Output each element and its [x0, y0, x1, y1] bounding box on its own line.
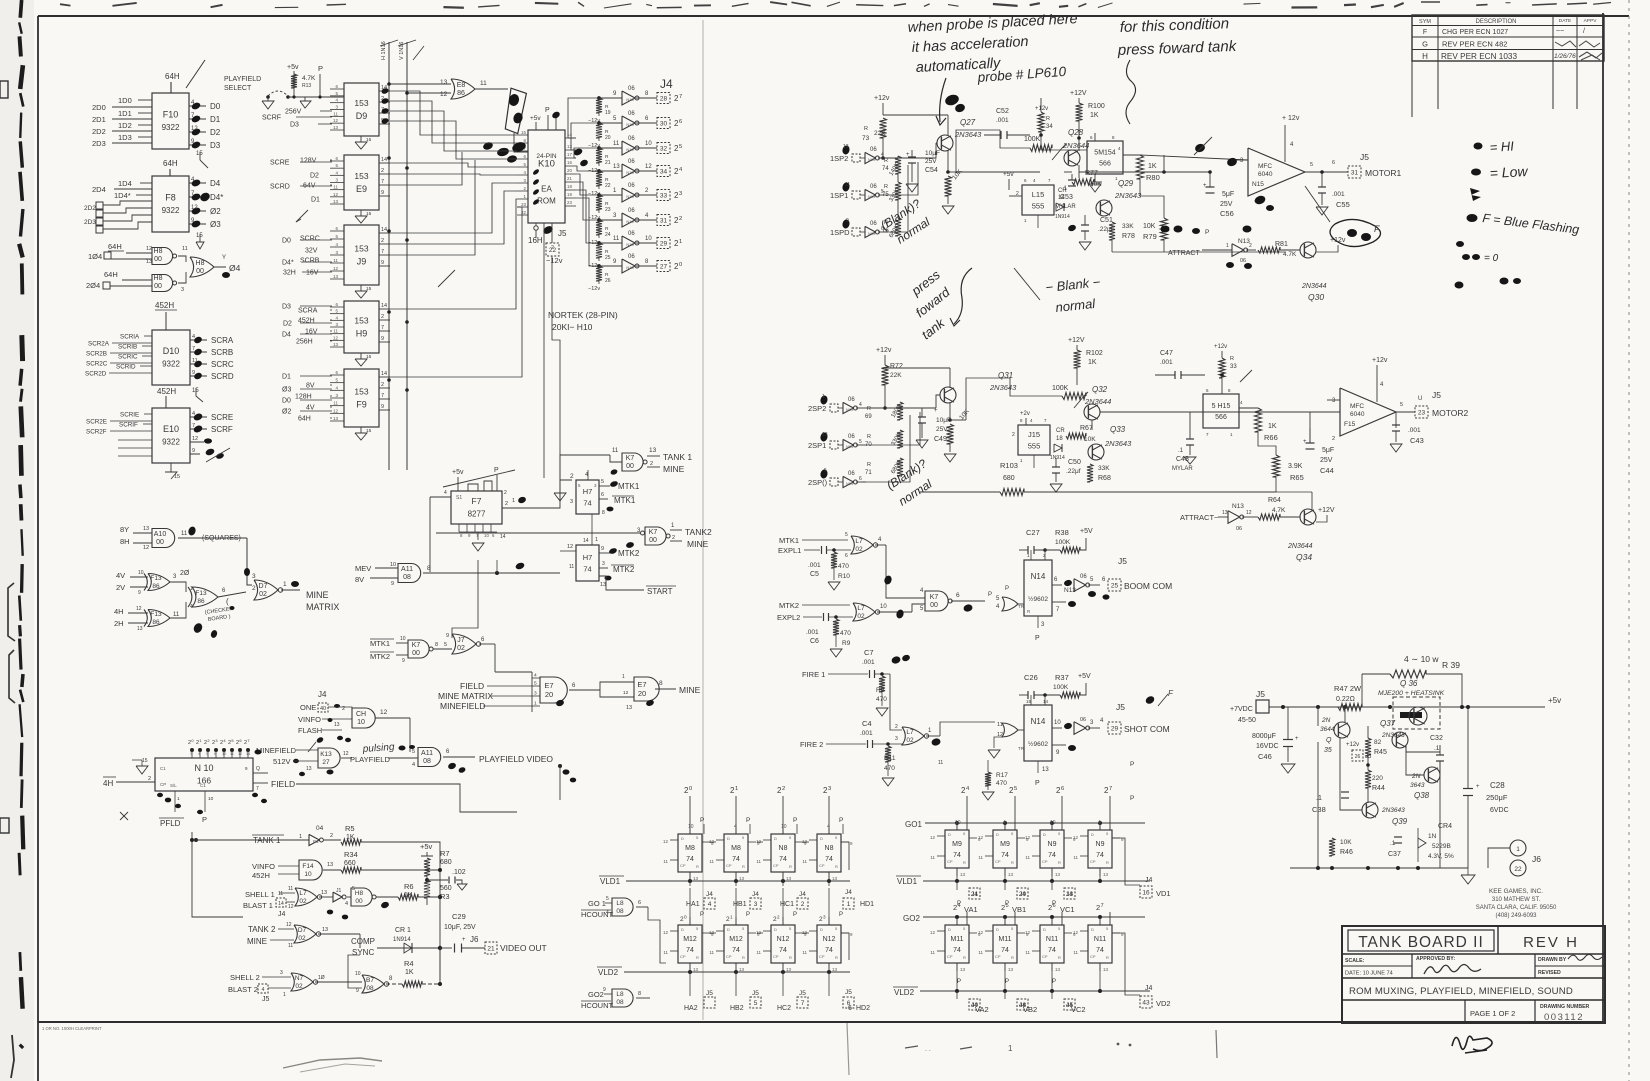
svg-text:D0: D0	[282, 238, 291, 245]
svg-text:13: 13	[1222, 510, 1228, 516]
svg-text:74: 74	[1096, 947, 1104, 954]
svg-text:C29: C29	[452, 912, 466, 921]
svg-text:D9: D9	[356, 111, 368, 121]
svg-text:1K: 1K	[1148, 163, 1157, 170]
svg-text:C54: C54	[925, 167, 938, 174]
svg-text:TANK 1: TANK 1	[253, 836, 281, 845]
svg-text:J5: J5	[1116, 702, 1125, 712]
svg-text:R46: R46	[1340, 849, 1353, 856]
svg-text:J6: J6	[1532, 854, 1541, 864]
svg-text:R: R	[867, 434, 871, 440]
svg-text:153: 153	[354, 171, 368, 181]
svg-text:11: 11	[480, 80, 487, 87]
svg-text:MINEFIELD: MINEFIELD	[256, 746, 297, 755]
svg-text:4: 4	[192, 411, 195, 417]
svg-text:1D4*: 1D4*	[114, 191, 131, 200]
svg-text:13: 13	[143, 526, 149, 532]
svg-text:R103: R103	[1000, 461, 1018, 470]
svg-text:R: R	[884, 184, 888, 190]
svg-text:3: 3	[534, 691, 537, 697]
svg-text:= Low: = Low	[1489, 163, 1528, 181]
svg-text:4: 4	[192, 334, 195, 340]
svg-text:P: P	[793, 817, 797, 824]
svg-text:74: 74	[732, 947, 740, 954]
svg-text:9: 9	[381, 190, 384, 196]
svg-text:128H: 128H	[295, 394, 312, 401]
svg-text:.1: .1	[1178, 448, 1184, 454]
svg-text:L7: L7	[906, 729, 914, 736]
svg-text:11: 11	[1025, 855, 1030, 860]
svg-text:MINE: MINE	[247, 937, 267, 946]
svg-text:13: 13	[822, 432, 828, 438]
svg-text:5: 5	[606, 896, 609, 902]
svg-text:4: 4	[827, 824, 830, 830]
svg-text:11: 11	[978, 950, 983, 955]
svg-text:D: D	[948, 832, 951, 837]
svg-text:MTK2: MTK2	[370, 652, 390, 661]
svg-text:3: 3	[570, 499, 573, 505]
svg-text:11: 11	[612, 448, 619, 454]
svg-text:N9: N9	[1096, 841, 1105, 848]
svg-text:SCRA: SCRA	[298, 308, 318, 315]
svg-text:EXPL1: EXPL1	[778, 546, 801, 555]
svg-text:5: 5	[859, 439, 862, 445]
svg-text:D: D	[727, 836, 730, 841]
svg-text:J5: J5	[752, 990, 759, 997]
svg-text:D3: D3	[290, 122, 299, 129]
svg-text:17: 17	[567, 152, 572, 157]
svg-text:74: 74	[1001, 852, 1009, 859]
svg-text:1SP2: 1SP2	[830, 154, 848, 163]
svg-text:R72: R72	[890, 363, 903, 370]
svg-text:13: 13	[440, 79, 448, 86]
svg-text:C1: C1	[160, 766, 166, 771]
svg-text:11: 11	[802, 950, 807, 955]
svg-text:1D2: 1D2	[118, 121, 132, 130]
svg-text:06: 06	[848, 471, 855, 477]
svg-text:P: P	[700, 912, 704, 918]
svg-text:74: 74	[1096, 852, 1104, 859]
svg-text:6: 6	[845, 553, 848, 559]
svg-text:MEV: MEV	[355, 564, 371, 573]
svg-text:9322: 9322	[162, 437, 180, 446]
svg-text:2: 2	[381, 382, 384, 388]
svg-text:12: 12	[143, 545, 149, 551]
svg-text:14: 14	[246, 752, 250, 756]
svg-text:8Y: 8Y	[120, 525, 129, 534]
svg-text:555: 555	[1032, 201, 1045, 210]
svg-text:R9: R9	[842, 640, 851, 647]
svg-text:B1: B1	[313, 839, 319, 844]
svg-text:7: 7	[192, 346, 195, 352]
svg-text:VINFO: VINFO	[252, 862, 275, 871]
svg-text:10: 10	[304, 871, 312, 878]
svg-text:74: 74	[825, 856, 833, 863]
svg-text:32: 32	[660, 145, 668, 152]
svg-text:P: P	[1052, 979, 1056, 985]
svg-text:TANK BOARD II: TANK BOARD II	[1358, 934, 1484, 951]
svg-text:11: 11	[802, 859, 807, 864]
svg-text:SCR2F: SCR2F	[86, 429, 107, 436]
svg-text:C52: C52	[996, 108, 1009, 115]
svg-text:START: START	[647, 587, 673, 596]
svg-text:.001: .001	[1160, 359, 1173, 366]
svg-text:16VDC: 16VDC	[1256, 743, 1279, 750]
svg-text:34: 34	[1046, 124, 1053, 130]
svg-text:5: 5	[679, 144, 682, 150]
svg-text:FLASH: FLASH	[298, 726, 322, 735]
svg-text:20: 20	[567, 168, 572, 173]
svg-text:3: 3	[280, 970, 283, 976]
svg-text:9322: 9322	[162, 359, 180, 368]
svg-text:32H: 32H	[283, 270, 296, 277]
svg-text:1: 1	[199, 738, 201, 743]
svg-text:M11: M11	[998, 936, 1011, 943]
svg-text:N15: N15	[626, 97, 634, 102]
svg-text:P: P	[746, 912, 750, 918]
svg-text:DRAWING NUMBER: DRAWING NUMBER	[1540, 1004, 1590, 1010]
svg-text:R37: R37	[1055, 673, 1069, 682]
svg-text:3: 3	[754, 901, 758, 908]
svg-text:06: 06	[1080, 574, 1087, 580]
svg-text:CP: CP	[680, 863, 686, 868]
svg-text:GO2: GO2	[588, 990, 604, 999]
svg-text:CP: CP	[1042, 859, 1048, 864]
svg-text:06: 06	[848, 434, 855, 440]
svg-text:BOOM COM: BOOM COM	[1124, 581, 1172, 591]
svg-text:. .: . .	[925, 1046, 931, 1053]
svg-text:C49: C49	[934, 436, 947, 443]
svg-text:J4: J4	[752, 891, 759, 898]
svg-text:K13: K13	[320, 751, 332, 758]
svg-text:Ø3: Ø3	[282, 387, 291, 394]
svg-text:74: 74	[779, 947, 787, 954]
svg-text:100K: 100K	[1024, 136, 1041, 143]
svg-text:SCR2B: SCR2B	[86, 351, 107, 358]
svg-text:R65: R65	[1290, 473, 1304, 482]
svg-text:680: 680	[1003, 475, 1015, 482]
svg-text:9: 9	[356, 988, 359, 994]
svg-text:4: 4	[262, 987, 265, 993]
svg-text:P: P	[494, 467, 499, 474]
svg-text:H: H	[1422, 52, 1428, 61]
svg-text:13: 13	[786, 967, 792, 972]
svg-text:10μF: 10μF	[925, 150, 940, 157]
svg-text:02: 02	[906, 737, 914, 744]
svg-text:CP: CP	[1090, 954, 1096, 959]
svg-text:ATTRACT: ATTRACT	[1168, 250, 1200, 257]
svg-text:2N3643: 2N3643	[1104, 439, 1132, 448]
svg-text:2D2: 2D2	[84, 205, 96, 212]
svg-text:23: 23	[521, 202, 526, 207]
svg-text:CH: CH	[356, 711, 366, 718]
svg-text:33K: 33K	[1098, 465, 1110, 472]
svg-text:13: 13	[567, 144, 572, 149]
svg-text:6: 6	[679, 119, 682, 125]
svg-text:2: 2	[953, 903, 957, 912]
svg-text:C47: C47	[1160, 350, 1173, 357]
svg-text:D10: D10	[163, 346, 180, 356]
svg-text:06: 06	[628, 208, 635, 214]
svg-text:pulsing: pulsing	[361, 742, 395, 755]
svg-text:08: 08	[616, 908, 624, 915]
svg-text:13: 13	[960, 967, 966, 972]
svg-text:12: 12	[380, 709, 388, 716]
svg-text:+5v: +5v	[452, 469, 464, 476]
svg-text:D7: D7	[298, 927, 307, 934]
svg-text:00: 00	[196, 268, 204, 275]
svg-text:MINE: MINE	[663, 464, 685, 474]
svg-text:5 H15: 5 H15	[1212, 403, 1231, 410]
svg-text:A10: A10	[154, 531, 167, 538]
svg-text:EA: EA	[541, 184, 552, 193]
svg-text:9: 9	[381, 336, 384, 342]
svg-text:CP: CP	[726, 954, 732, 959]
svg-text:2: 2	[1332, 436, 1335, 442]
svg-text:GO2: GO2	[903, 914, 920, 923]
svg-text:13: 13	[306, 766, 312, 772]
svg-text:CP: CP	[773, 954, 779, 959]
svg-text:13: 13	[1008, 872, 1014, 877]
svg-text:06: 06	[1236, 526, 1242, 532]
svg-text:L7: L7	[857, 605, 865, 612]
svg-text:1Ø4: 1Ø4	[88, 252, 102, 261]
svg-text:K7: K7	[930, 594, 939, 601]
svg-text:3643: 3643	[1410, 782, 1425, 789]
svg-text:11: 11	[709, 859, 714, 864]
svg-text:VLD1: VLD1	[897, 877, 918, 886]
svg-text:VA1: VA1	[964, 905, 978, 914]
svg-text:12: 12	[623, 690, 629, 696]
svg-text:11: 11	[663, 859, 668, 864]
svg-text:S/L: S/L	[170, 783, 177, 788]
svg-text:0: 0	[684, 914, 687, 919]
svg-text:11: 11	[930, 950, 935, 955]
svg-text:153: 153	[354, 316, 368, 326]
svg-text:12: 12	[709, 930, 715, 935]
svg-text:SCRF: SCRF	[262, 115, 281, 122]
svg-text:SCRF: SCRF	[211, 425, 233, 434]
svg-text:2H: 2H	[114, 619, 124, 628]
svg-text:SCALE:: SCALE:	[1345, 958, 1365, 964]
svg-text:12: 12	[333, 118, 339, 123]
svg-text:13: 13	[333, 199, 339, 204]
svg-text:TR: TR	[1018, 746, 1025, 751]
svg-text:12: 12	[286, 922, 292, 928]
svg-text:J4: J4	[318, 690, 327, 699]
svg-text:FIELD: FIELD	[460, 681, 484, 691]
svg-text:1: 1	[177, 796, 180, 802]
svg-text:GO1: GO1	[905, 820, 922, 829]
svg-text:15: 15	[366, 286, 372, 292]
svg-text:APPV: APPV	[1584, 18, 1598, 24]
svg-text:EXPL2: EXPL2	[777, 613, 800, 622]
svg-text:25V: 25V	[1320, 457, 1333, 464]
svg-text:J4: J4	[1145, 877, 1153, 884]
svg-text:J5: J5	[558, 229, 567, 238]
svg-text:86: 86	[152, 583, 160, 590]
svg-text:8V: 8V	[306, 383, 315, 390]
svg-text:R66: R66	[1264, 433, 1278, 442]
svg-text:R100: R100	[1088, 103, 1105, 110]
svg-text:P: P	[746, 817, 750, 824]
svg-text:MTK1: MTK1	[618, 482, 640, 491]
svg-text:7: 7	[381, 249, 384, 255]
svg-text:25V: 25V	[925, 158, 937, 165]
svg-text:06: 06	[1240, 258, 1246, 264]
svg-text:12: 12	[288, 904, 294, 910]
svg-text:14: 14	[381, 227, 387, 233]
svg-text:4: 4	[190, 604, 193, 610]
svg-text:2N3643: 2N3643	[989, 383, 1017, 392]
svg-text:E7: E7	[544, 681, 553, 690]
svg-text:N15: N15	[626, 170, 634, 175]
svg-text:31: 31	[1351, 169, 1359, 176]
svg-text:C37: C37	[1388, 851, 1401, 858]
svg-text:12: 12	[1025, 835, 1031, 840]
svg-text:452H: 452H	[155, 301, 174, 310]
svg-text:VLD2: VLD2	[894, 988, 915, 997]
svg-text:BLAST 2: BLAST 2	[228, 985, 258, 994]
svg-text:33K: 33K	[1122, 223, 1134, 230]
svg-text:−12v: −12v	[546, 256, 563, 265]
svg-text:+: +	[1476, 784, 1480, 790]
svg-text:2N3643: 2N3643	[1114, 191, 1142, 200]
svg-text:J6: J6	[470, 935, 479, 944]
svg-text:2SP2: 2SP2	[808, 404, 826, 413]
svg-text:P: P	[988, 592, 992, 598]
svg-text:HB2: HB2	[730, 1005, 744, 1012]
svg-text:2: 2	[551, 245, 554, 251]
svg-text:6: 6	[847, 1000, 851, 1007]
svg-text:D2: D2	[310, 173, 319, 180]
svg-text:C27: C27	[1026, 528, 1040, 537]
svg-text:SYM: SYM	[1419, 19, 1431, 25]
svg-text:R 39: R 39	[1442, 660, 1460, 670]
svg-text:SCRE: SCRE	[270, 160, 290, 167]
svg-text:HA2: HA2	[684, 1005, 698, 1012]
svg-text:COMP: COMP	[351, 937, 375, 946]
svg-text:10: 10	[645, 141, 652, 147]
svg-text:9: 9	[192, 370, 195, 376]
svg-text:MINE: MINE	[679, 685, 701, 695]
svg-text:Q37: Q37	[1380, 719, 1396, 728]
svg-text:12: 12	[333, 266, 339, 271]
svg-text:N13: N13	[1064, 587, 1076, 594]
svg-text:13: 13	[1103, 967, 1109, 972]
svg-text:SCR2E: SCR2E	[86, 419, 107, 426]
svg-text:1: 1	[283, 992, 286, 998]
svg-text:153: 153	[354, 98, 368, 108]
svg-text:4: 4	[606, 910, 609, 916]
svg-text:J4: J4	[278, 911, 286, 918]
svg-text:2: 2	[650, 461, 653, 467]
svg-text:23: 23	[1418, 409, 1426, 416]
svg-text:R: R	[1046, 116, 1050, 122]
svg-text:P: P	[957, 979, 961, 985]
svg-text:12: 12	[756, 839, 762, 844]
svg-text:.102: .102	[452, 869, 466, 876]
svg-text:10: 10	[1054, 720, 1061, 726]
svg-text:20: 20	[1019, 891, 1027, 898]
svg-text:TANK 1: TANK 1	[663, 452, 692, 462]
svg-text:4: 4	[859, 402, 862, 408]
svg-text:74: 74	[686, 856, 694, 863]
svg-text:2D3: 2D3	[92, 139, 106, 148]
svg-text:CP: CP	[947, 859, 953, 864]
svg-text:74: 74	[1001, 947, 1009, 954]
svg-text:HB1: HB1	[733, 901, 747, 908]
svg-text:13: 13	[600, 582, 606, 588]
svg-text:Q30: Q30	[1308, 292, 1324, 302]
svg-text:00: 00	[626, 463, 634, 470]
svg-text:R: R	[963, 860, 966, 865]
svg-text:D0: D0	[210, 102, 221, 111]
svg-text:(408) 249-6093: (408) 249-6093	[1495, 913, 1537, 919]
svg-text:220: 220	[1372, 775, 1383, 782]
svg-text:D4*: D4*	[282, 260, 294, 267]
svg-text:SCRIC: SCRIC	[118, 354, 138, 361]
svg-text:1: 1	[679, 239, 682, 245]
svg-text:64H: 64H	[165, 72, 180, 81]
svg-text:5μF: 5μF	[1222, 191, 1234, 198]
svg-text:15: 15	[142, 758, 148, 764]
svg-text:680: 680	[440, 859, 452, 866]
svg-text:SYNC: SYNC	[352, 948, 374, 957]
svg-text:12: 12	[802, 839, 808, 844]
svg-text:34: 34	[660, 168, 668, 175]
svg-text:C5: C5	[810, 571, 819, 578]
svg-text:40: 40	[320, 706, 326, 712]
svg-text:+5v: +5v	[420, 842, 433, 851]
svg-text:13: 13	[739, 967, 745, 972]
svg-text:11: 11	[333, 258, 338, 263]
svg-text:MINE: MINE	[306, 590, 329, 600]
svg-text:SHOT COM: SHOT COM	[1124, 724, 1170, 734]
svg-text:SCRID: SCRID	[116, 364, 136, 371]
svg-text:1N: 1N	[1428, 833, 1437, 840]
svg-text:C43: C43	[1410, 436, 1424, 445]
svg-text:6VDC: 6VDC	[1490, 807, 1509, 814]
svg-text:4: 4	[412, 762, 415, 768]
svg-text:C46: C46	[1258, 752, 1272, 761]
svg-text:+: +	[1295, 736, 1299, 742]
svg-text:C6: C6	[810, 638, 819, 645]
svg-text:6: 6	[956, 592, 960, 599]
svg-text:06: 06	[628, 183, 635, 189]
svg-text:22: 22	[605, 183, 611, 189]
svg-text:5: 5	[845, 532, 848, 538]
svg-text:N13: N13	[1232, 503, 1244, 510]
svg-text:CP: CP	[819, 863, 825, 868]
svg-text:R: R	[867, 462, 871, 468]
svg-text:2: 2	[1249, 243, 1252, 249]
svg-text:MFC: MFC	[1350, 403, 1364, 410]
svg-text:7: 7	[1109, 786, 1112, 792]
svg-text:H8: H8	[355, 890, 364, 897]
svg-text:1: 1	[595, 537, 598, 543]
svg-text:4 ∼ 10 w: 4 ∼ 10 w	[1404, 654, 1439, 664]
svg-text:12: 12	[645, 164, 652, 170]
svg-text:21: 21	[487, 945, 495, 952]
svg-text:9: 9	[603, 987, 606, 993]
svg-text:P: P	[1130, 795, 1134, 802]
svg-text:3644: 3644	[1320, 726, 1335, 733]
svg-text:N 10: N 10	[194, 763, 213, 773]
svg-text:74: 74	[825, 947, 833, 954]
svg-text:128V: 128V	[300, 158, 317, 165]
svg-text:2: 2	[504, 490, 507, 496]
